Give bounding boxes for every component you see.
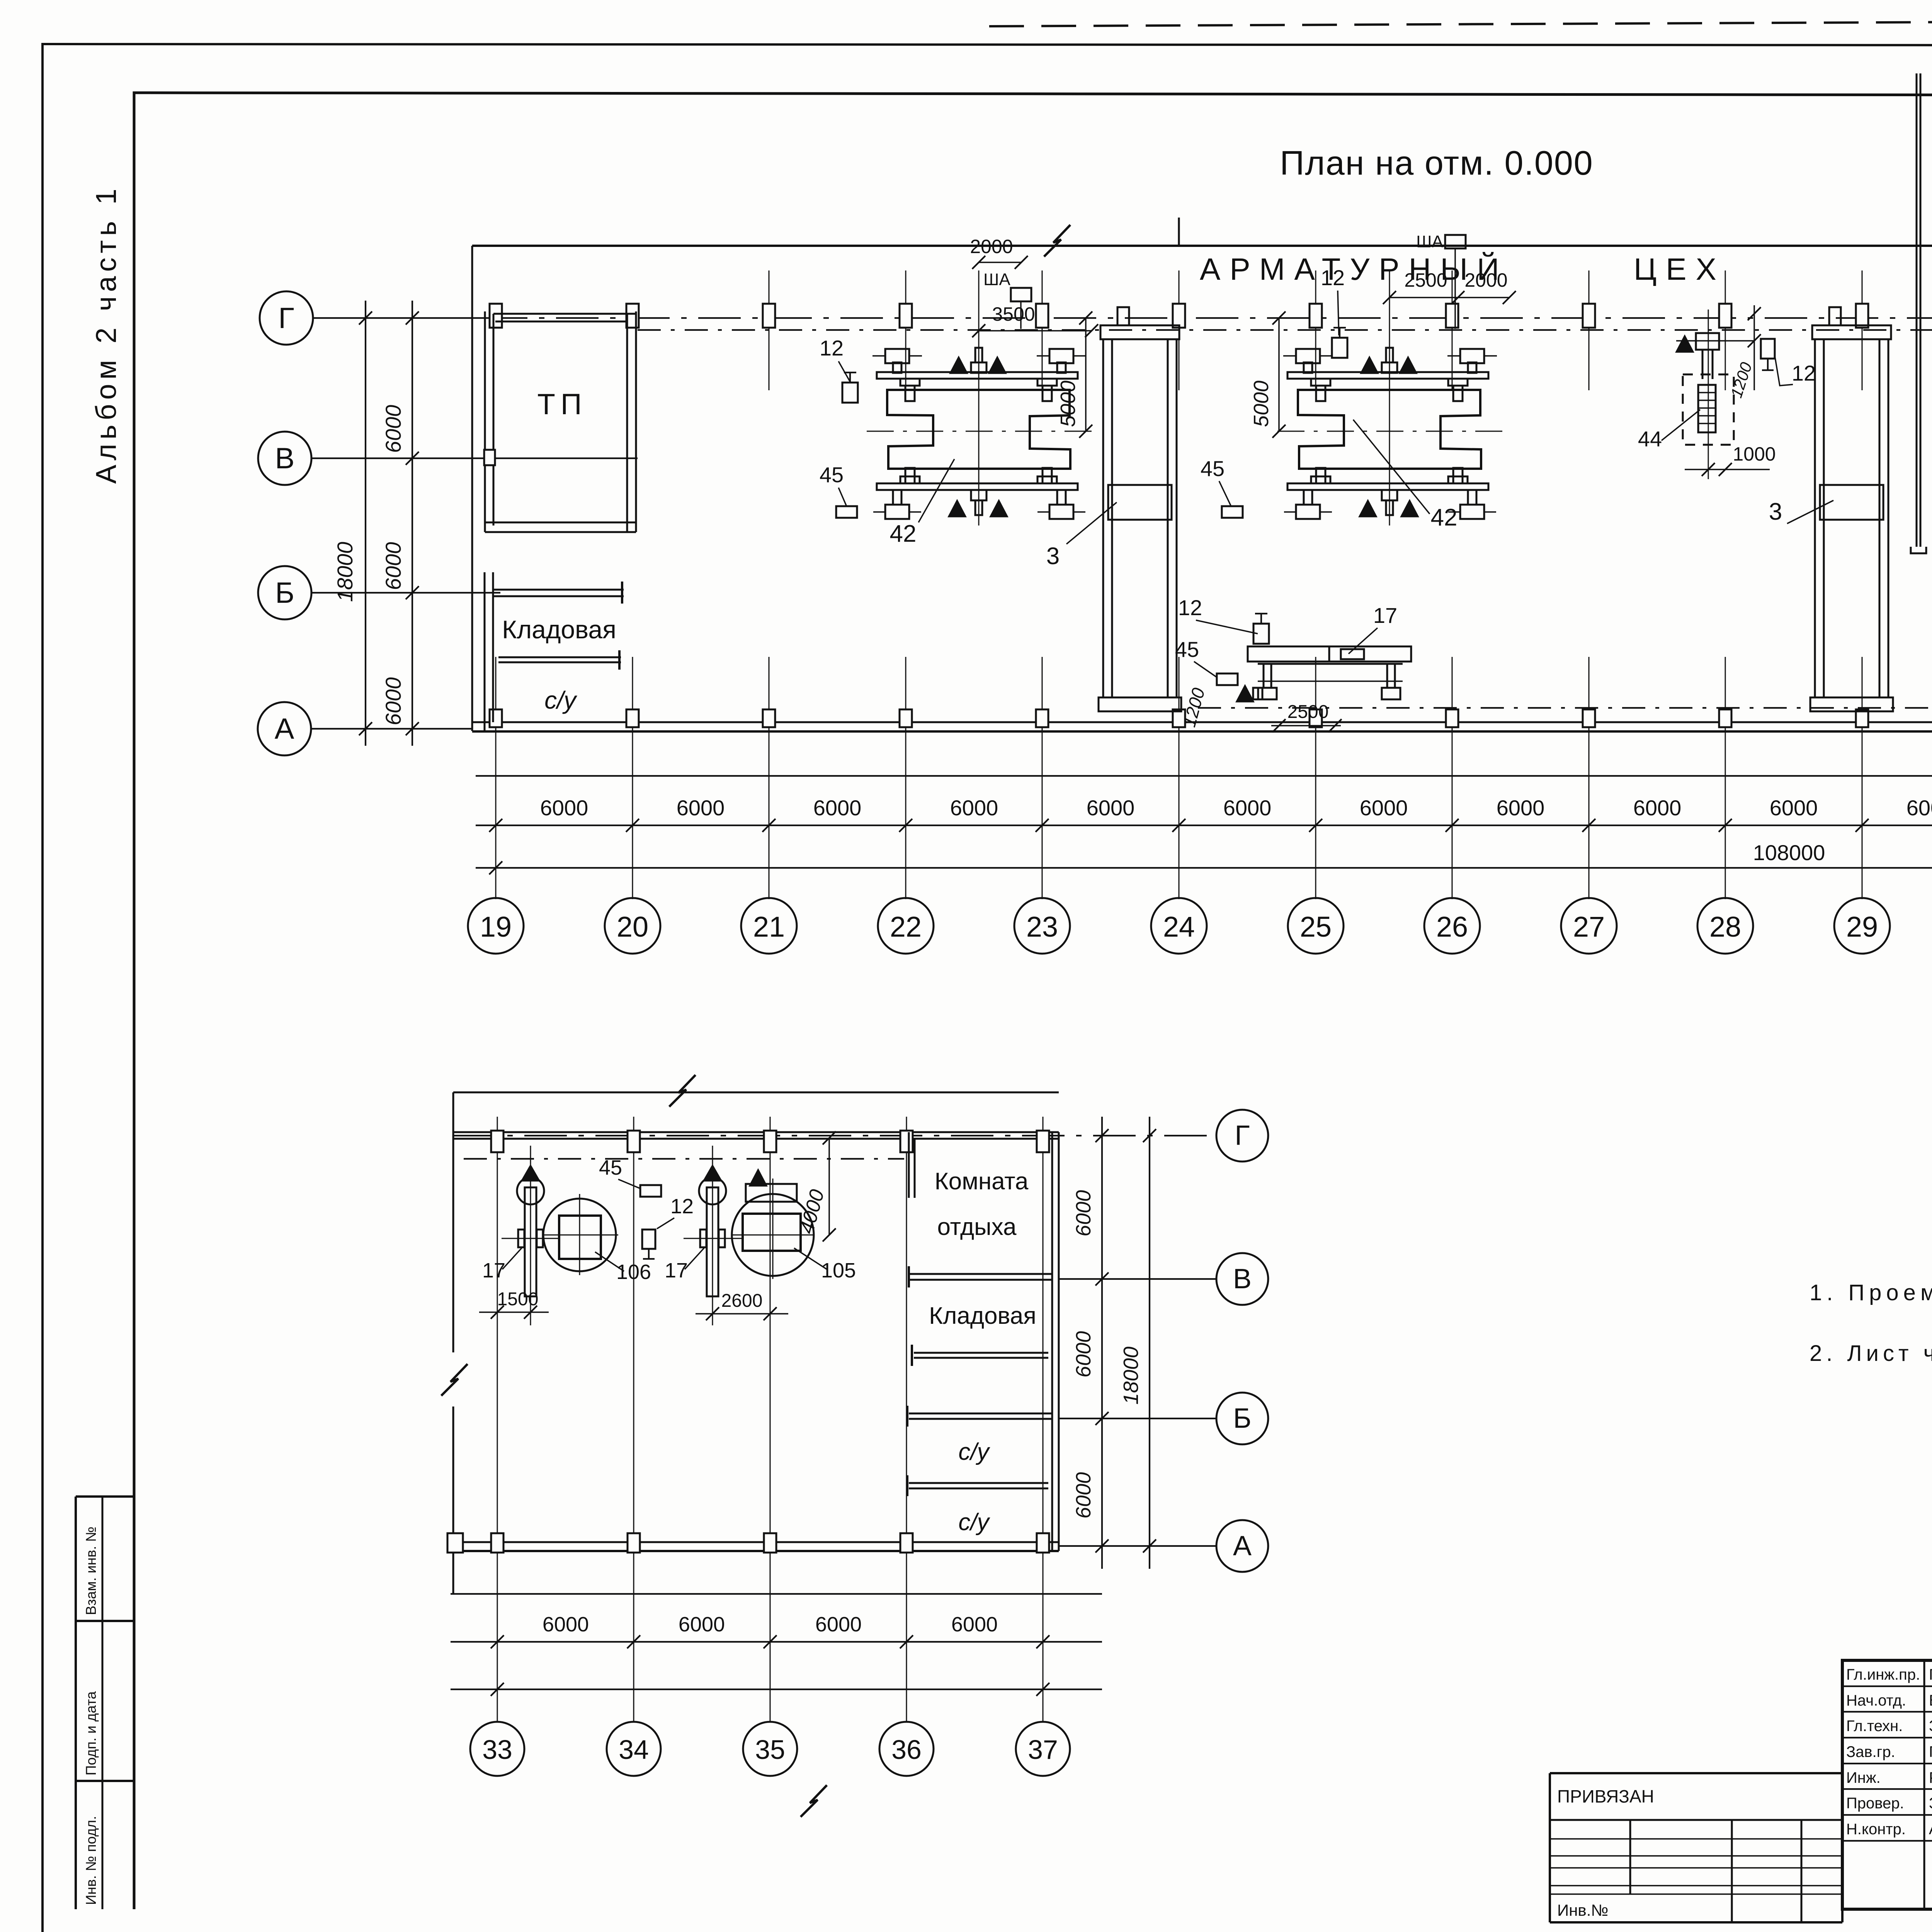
pilaster on axis Г col 29 <box>1856 304 1868 328</box>
wall end bar <box>618 650 621 670</box>
svg-text:37: 37 <box>1028 1735 1058 1765</box>
svg-text:ТП: ТП <box>537 388 587 421</box>
svg-text:12: 12 <box>820 336 844 360</box>
lower pilaster Г col 37 <box>1037 1131 1049 1152</box>
pilaster on axis А col 26 <box>1446 709 1458 727</box>
title block verticals left section <box>1923 1660 1925 1909</box>
air outlet symbol 45 <box>836 506 857 518</box>
divider wall lower rooms <box>909 1482 1048 1484</box>
dim 2500 bench <box>1271 725 1341 726</box>
svg-text:5000: 5000 <box>1056 381 1080 427</box>
svg-text:с/у: с/у <box>958 1439 990 1465</box>
column line 23 upper plan <box>1042 270 1043 390</box>
svg-text:6000: 6000 <box>381 677 405 726</box>
svg-text:6000: 6000 <box>1770 796 1818 820</box>
lower dim 6000 vertical <box>1101 1117 1103 1569</box>
column line 28 upper plan <box>1725 270 1726 390</box>
svg-text:33: 33 <box>482 1735 512 1765</box>
pilaster on axis А col 23 <box>1036 709 1048 727</box>
svg-text:2000: 2000 <box>1464 269 1507 291</box>
grid circle 21 <box>741 898 797 954</box>
workbench 17 <box>1248 646 1411 662</box>
title row line 5 <box>1842 1788 1932 1790</box>
svg-text:6000: 6000 <box>540 796 588 820</box>
svg-text:3500: 3500 <box>992 303 1035 325</box>
grid circle 19 <box>468 898 524 954</box>
svg-text:5000: 5000 <box>1250 381 1273 427</box>
lower pilaster Г col 34 <box>628 1131 640 1152</box>
svg-text:Инв. № подл.: Инв. № подл. <box>83 1816 99 1905</box>
column line 19 upper plan <box>495 657 497 899</box>
svg-text:Альбом 2 часть 1: Альбом 2 часть 1 <box>90 184 122 484</box>
building left wall <box>471 246 473 731</box>
pilaster on axis Г col 28 <box>1719 304 1731 328</box>
lower rooms right wall <box>1051 1132 1053 1551</box>
svg-text:25: 25 <box>1300 911 1332 943</box>
svg-text:ШA: ШA <box>1416 232 1443 251</box>
title row line 6 <box>1842 1814 1932 1816</box>
svg-text:6000: 6000 <box>1906 796 1932 820</box>
svg-text:108000: 108000 <box>1753 840 1825 865</box>
lower pilaster А col 37 <box>1037 1533 1049 1553</box>
svg-text:А: А <box>275 713 294 745</box>
column line 29 upper plan <box>1862 270 1863 390</box>
conveyor 3 instance B <box>1812 325 1891 339</box>
dim 5000 machine A <box>1085 318 1087 431</box>
wall axis Б lower rooms <box>909 1413 1052 1415</box>
svg-text:44: 44 <box>1638 427 1662 451</box>
break mark top wall a <box>1044 225 1070 257</box>
lower saw 17 left <box>530 1146 531 1325</box>
column line 21 upper plan <box>769 270 770 390</box>
svg-text:23: 23 <box>1026 911 1058 943</box>
svg-text:6000: 6000 <box>1360 796 1408 820</box>
svg-text:6000: 6000 <box>1223 796 1272 820</box>
column line 20 upper plan <box>632 657 633 899</box>
svg-text:2500: 2500 <box>1287 702 1329 722</box>
pipe tap box machine A <box>1011 288 1031 301</box>
svg-text:12: 12 <box>670 1195 694 1218</box>
svg-text:В: В <box>1233 1264 1252 1294</box>
svg-text:1000: 1000 <box>1733 443 1776 465</box>
svg-text:Инж.: Инж. <box>1846 1769 1881 1786</box>
symbol 12 near conveyor B <box>1761 339 1775 359</box>
room Komnata otdyha <box>908 1132 910 1198</box>
break mark lower left <box>441 1364 468 1396</box>
svg-text:6000: 6000 <box>1087 796 1135 820</box>
lower machine 106 <box>543 1199 616 1271</box>
pilaster on axis Г col 25 <box>1310 304 1322 328</box>
svg-text:А: А <box>1233 1531 1252 1561</box>
grid circle В <box>258 432 311 485</box>
svg-text:Варганов: Варганов <box>1929 1692 1932 1709</box>
svg-text:45: 45 <box>599 1156 622 1179</box>
svg-text:Б: Б <box>275 577 294 609</box>
svg-text:Н.контр.: Н.контр. <box>1846 1821 1906 1838</box>
svg-text:Авраменко: Авраменко <box>1929 1821 1932 1838</box>
svg-text:Г: Г <box>278 302 294 335</box>
svg-text:12: 12 <box>1321 265 1345 290</box>
dim 3500 machine A <box>979 330 1092 332</box>
lower pipeline <box>464 1158 904 1160</box>
title row line 2 <box>1842 1711 1932 1713</box>
pilaster on axis А col 24 <box>1173 709 1185 727</box>
lower pilaster Г col 33 <box>491 1131 503 1152</box>
grid circle 28 <box>1697 898 1753 954</box>
lower pilaster А col 36 <box>900 1533 913 1553</box>
compressed air pipeline along А <box>1198 707 1932 709</box>
svg-text:Побежимов: Побежимов <box>1929 1743 1932 1760</box>
lower pilaster А col 33 <box>491 1533 503 1553</box>
svg-text:Б: Б <box>1233 1403 1251 1434</box>
machine 42 instance B <box>1389 270 1390 526</box>
lower dim 4000 <box>828 1138 830 1235</box>
top margin band line <box>134 93 1932 96</box>
svg-text:Заневская: Заневская <box>1929 1718 1932 1735</box>
dim 1000 machine 44 <box>1685 469 1770 470</box>
svg-text:34: 34 <box>619 1735 649 1765</box>
vice on bench <box>1341 649 1364 659</box>
svg-text:Готлиб: Готлиб <box>1929 1666 1932 1683</box>
lower dim 2600 <box>696 1313 788 1315</box>
svg-text:Гл.инж.пр.: Гл.инж.пр. <box>1846 1666 1920 1683</box>
grid circle Б <box>258 566 311 619</box>
svg-text:Заневская: Заневская <box>1929 1795 1932 1812</box>
axis А <box>311 728 472 730</box>
lower pilaster А col 35 <box>764 1533 776 1553</box>
lower axis Б line <box>1059 1418 1216 1419</box>
dim 1200 machine 44 <box>1753 305 1755 390</box>
pilaster on axis А col 19 <box>490 709 502 727</box>
lower grid circle 33 <box>470 1722 524 1776</box>
svg-text:3: 3 <box>1046 543 1060 570</box>
svg-text:Рассудкова: Рассудкова <box>1929 1769 1932 1786</box>
svg-text:12: 12 <box>1792 361 1816 385</box>
svg-text:Зав.гр.: Зав.гр. <box>1846 1743 1895 1760</box>
svg-text:6000: 6000 <box>381 405 405 453</box>
lower machine 105 <box>732 1194 814 1276</box>
svg-text:Провер.: Провер. <box>1846 1795 1904 1812</box>
grid circle А <box>258 702 311 755</box>
grid circle 27 <box>1561 898 1617 954</box>
dim line row 1 <box>476 775 1932 777</box>
svg-text:ЦЕХ: ЦЕХ <box>1634 252 1726 286</box>
room ТП walls <box>484 311 486 532</box>
svg-text:Г: Г <box>1235 1120 1250 1151</box>
pilaster TP axis В <box>484 450 495 465</box>
wall along axis А <box>472 721 1932 723</box>
pilaster on axis Г col 23 <box>1036 304 1048 328</box>
pipe stub machine A <box>1020 301 1022 329</box>
svg-text:План на отм. 0.000: План на отм. 0.000 <box>1280 144 1594 182</box>
pilaster on axis А col 22 <box>900 709 912 727</box>
lower dim 1500 <box>479 1311 549 1313</box>
wall axis В lower rooms <box>909 1273 1052 1275</box>
pilaster on axis Г col 21 <box>763 304 775 328</box>
svg-text:Гл.техн.: Гл.техн. <box>1846 1718 1903 1735</box>
svg-text:21: 21 <box>753 911 785 943</box>
svg-text:ШA: ШA <box>983 270 1010 289</box>
storeroom walls upper plan <box>484 572 486 731</box>
svg-text:1500: 1500 <box>497 1289 539 1310</box>
lower grid circle 34 <box>607 1722 661 1776</box>
title row line 7 <box>1842 1840 1932 1842</box>
grid circle 23 <box>1014 898 1070 954</box>
grid circle 29 <box>1834 898 1890 954</box>
column circles 19-33 <box>495 868 497 898</box>
svg-text:42: 42 <box>890 520 917 547</box>
svg-text:105: 105 <box>821 1259 856 1282</box>
lower bottom dim lines <box>451 1593 1102 1595</box>
svg-text:с/у: с/у <box>544 686 578 714</box>
crane rail lines <box>1916 73 1918 547</box>
lower wall axis А <box>453 1541 1059 1543</box>
pilaster on axis А col 25 <box>1310 709 1322 727</box>
svg-text:Подп. и дата: Подп. и дата <box>83 1691 99 1776</box>
column line 24 upper plan <box>1179 270 1180 390</box>
torn edge dashed line top <box>989 19 1932 26</box>
lower pilaster Г col 36 <box>900 1131 913 1152</box>
svg-text:20: 20 <box>617 911 648 943</box>
pilaster on axis Г col 24 <box>1173 304 1185 328</box>
svg-text:с/у: с/у <box>958 1509 990 1536</box>
pneumatic consumer symbol 12 <box>1332 338 1347 358</box>
title row line 4 <box>1842 1763 1932 1764</box>
pipe tap box machine B <box>1445 235 1466 248</box>
svg-text:29: 29 <box>1846 911 1878 943</box>
pilaster on axis Г col 19 <box>490 304 502 328</box>
lower plan top wall <box>453 1092 1059 1094</box>
svg-text:6000: 6000 <box>813 796 862 820</box>
svg-text:19: 19 <box>480 911 512 943</box>
svg-text:3: 3 <box>1769 498 1782 525</box>
lower grid circle 37 <box>1016 1722 1070 1776</box>
air outlet symbol 45 <box>1217 673 1238 685</box>
svg-text:18000: 18000 <box>1119 1347 1143 1405</box>
lower pilaster Г col 35 <box>764 1131 776 1152</box>
svg-text:17: 17 <box>665 1259 688 1282</box>
grid circle 22 <box>878 898 934 954</box>
svg-text:26: 26 <box>1436 911 1468 943</box>
svg-text:27: 27 <box>1573 911 1605 943</box>
pneumatic consumer symbol 12 <box>1253 624 1269 644</box>
svg-text:6000: 6000 <box>815 1613 862 1636</box>
svg-text:В: В <box>275 442 295 475</box>
svg-text:12: 12 <box>1178 595 1202 620</box>
dim line 18000 vertical <box>365 301 366 746</box>
dim 2000 machine A <box>979 262 1021 263</box>
svg-text:17: 17 <box>482 1259 505 1282</box>
grid circle 24 <box>1151 898 1207 954</box>
svg-text:18000: 18000 <box>333 542 357 602</box>
column line 25 upper plan <box>1315 270 1316 390</box>
break mark lower top <box>669 1075 696 1107</box>
svg-text:106: 106 <box>616 1260 651 1284</box>
pilaster on axis Г col 27 <box>1583 304 1595 328</box>
svg-text:2. Лист читать совместно с лис: 2. Лист читать совместно с листами 2, 15… <box>1810 1341 1932 1366</box>
svg-text:6000: 6000 <box>1633 796 1682 820</box>
title row line 3 <box>1842 1737 1932 1738</box>
svg-text:6000: 6000 <box>677 796 725 820</box>
svg-text:45: 45 <box>1175 637 1199 662</box>
air outlet symbol 45 <box>640 1185 661 1197</box>
dim line total 108000 <box>476 867 1932 869</box>
svg-text:2000: 2000 <box>970 236 1013 257</box>
svg-text:АРМАТУРНЫЙ: АРМАТУРНЫЙ <box>1200 252 1509 286</box>
lower plan left break edge <box>452 1092 454 1352</box>
column 24 stub above wall <box>1178 218 1180 246</box>
pilaster on axis А col 27 <box>1583 709 1595 727</box>
svg-text:Взам. инв. №: Взам. инв. № <box>83 1527 99 1615</box>
building top wall <box>472 245 1932 247</box>
conveyor 3 instance A <box>1100 325 1179 339</box>
grid circle 25 <box>1288 898 1344 954</box>
svg-text:6000: 6000 <box>543 1613 589 1636</box>
svg-text:36: 36 <box>891 1735 922 1765</box>
svg-text:1. Проемы по оси А имеют высо: 1. Проемы по оси А имеют высоту не менее… <box>1810 1280 1932 1305</box>
svg-text:28: 28 <box>1709 911 1741 943</box>
svg-text:24: 24 <box>1163 911 1195 943</box>
grid circle 20 <box>605 898 660 954</box>
pilaster on axis Г col 20 <box>626 304 639 328</box>
title row line 1 <box>1842 1685 1932 1687</box>
dim line row 2 with 6000 bays <box>476 825 1932 826</box>
lower axis В line <box>1059 1278 1216 1280</box>
pilaster on axis А col 20 <box>626 709 639 727</box>
axis Г <box>313 317 485 319</box>
shelf lower rooms <box>914 1352 1048 1354</box>
svg-text:6000: 6000 <box>1072 1331 1095 1378</box>
lower axis Г line <box>453 1135 1216 1136</box>
svg-text:6000: 6000 <box>381 542 405 590</box>
svg-text:6000: 6000 <box>1497 796 1545 820</box>
svg-text:6000: 6000 <box>951 1613 998 1636</box>
title block outer <box>1842 1660 1932 1909</box>
break mark lower bottom <box>801 1785 827 1817</box>
pilaster on axis А col 21 <box>763 709 775 727</box>
svg-text:6000: 6000 <box>1072 1190 1095 1236</box>
lower grid circle 35 <box>743 1722 797 1776</box>
svg-text:Нач.отд.: Нач.отд. <box>1846 1692 1906 1709</box>
side stamp table <box>76 1495 134 1498</box>
pilaster on axis Г col 26 <box>1446 304 1458 328</box>
lower column line 36 <box>906 1117 907 1722</box>
lower dim 18000 vertical <box>1149 1117 1150 1569</box>
column line 26 upper plan <box>1452 270 1453 390</box>
axis Б <box>311 592 500 594</box>
lower grid circles right <box>1216 1110 1268 1162</box>
svg-text:2500: 2500 <box>1404 269 1447 291</box>
machine 42 instance A <box>978 270 980 526</box>
svg-text:6000: 6000 <box>679 1613 725 1636</box>
lower axis А line <box>1059 1545 1216 1547</box>
lower column line 35 <box>770 1117 771 1722</box>
lower column line 33 <box>497 1117 498 1722</box>
grid circle 26 <box>1424 898 1480 954</box>
privyazan table <box>1550 1772 1842 1774</box>
compressed air pipeline along Г <box>638 329 1932 331</box>
column line 22 upper plan <box>905 270 906 390</box>
pilaster on axis А col 29 <box>1856 709 1868 727</box>
svg-text:22: 22 <box>890 911 922 943</box>
svg-text:17: 17 <box>1373 603 1397 628</box>
svg-text:2600: 2600 <box>721 1291 763 1311</box>
pilaster on axis А col 28 <box>1719 709 1731 727</box>
lower pilaster А left end <box>447 1533 463 1553</box>
svg-text:Комната: Комната <box>935 1168 1029 1195</box>
lower pilaster А col 34 <box>628 1533 640 1553</box>
svg-text:45: 45 <box>1201 456 1225 481</box>
svg-text:42: 42 <box>1431 504 1458 531</box>
grid circle Г <box>260 291 313 345</box>
svg-text:6000: 6000 <box>950 796 998 820</box>
pilaster on axis Г col 22 <box>900 304 912 328</box>
svg-text:Кладовая: Кладовая <box>929 1303 1036 1329</box>
svg-text:Кладовая: Кладовая <box>502 615 616 644</box>
wall end bar <box>621 582 623 604</box>
lower wall axis Г <box>453 1131 1059 1133</box>
pneumatic consumer symbol 12 <box>842 383 858 403</box>
svg-text:6000: 6000 <box>1072 1472 1095 1519</box>
dim 2500 2000 machine B <box>1389 297 1509 298</box>
svg-text:ПРИВЯЗАН: ПРИВЯЗАН <box>1557 1786 1654 1806</box>
machine 44 top instance <box>1708 310 1709 479</box>
svg-text:45: 45 <box>820 463 844 487</box>
axis В <box>311 457 638 459</box>
dim line 6000 vertical column <box>412 301 413 746</box>
pipe stub machine B <box>1454 248 1456 329</box>
dim 5000 machine B <box>1278 318 1280 431</box>
lower saw 17 right <box>712 1146 713 1325</box>
lower column line 34 <box>633 1117 634 1722</box>
svg-text:35: 35 <box>755 1735 785 1765</box>
svg-text:Инв.№: Инв.№ <box>1557 1901 1608 1919</box>
column line 27 upper plan <box>1588 270 1590 390</box>
lower grid circle 36 <box>879 1722 934 1776</box>
air outlet symbol 45 <box>1222 506 1243 518</box>
svg-text:отдыха: отдыха <box>937 1214 1017 1240</box>
lower column line 37 <box>1043 1117 1044 1722</box>
